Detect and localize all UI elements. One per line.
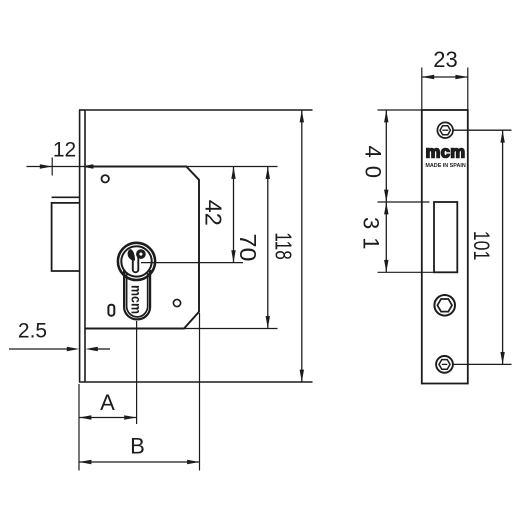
lock body outline — [85, 167, 199, 329]
middle hex screw: outer circle — [434, 295, 455, 316]
dim 40: top arrow — [384, 110, 388, 122]
dim 2.5: left arrow — [67, 347, 79, 351]
small slot left of cylinder — [108, 305, 114, 316]
svg-text:mcm: mcm — [426, 143, 466, 161]
svg-text:101: 101 — [469, 231, 494, 260]
dim 118: top extension line (plate top extended) — [85, 109, 313, 111]
dim A: right arrow — [124, 415, 136, 419]
dim 101: top leader from top screw — [453, 129, 512, 131]
dim 23: right arrow — [455, 75, 467, 79]
svg-text:40: 40 — [361, 146, 386, 179]
top screw: center dash — [442, 129, 448, 131]
dim B: right arrow — [187, 460, 199, 464]
dim 12: right arrow — [81, 164, 93, 168]
svg-text:42: 42 — [201, 200, 227, 226]
svg-text:MADE IN SPAIN: MADE IN SPAIN — [425, 163, 465, 169]
dim 31: dimension line — [385, 202, 387, 272]
bottom screw: hex socket — [439, 360, 450, 370]
key profile inside cylinder — [128, 249, 145, 272]
dim 31: top arrow — [384, 202, 388, 214]
bottom screw: center dash — [442, 363, 448, 365]
small hole right-middle of body — [173, 299, 180, 306]
dim 101: top arrow — [500, 130, 504, 142]
dim 42: bottom arrow — [231, 250, 235, 262]
bolt (deadbolt, protruding left of faceplate) — [52, 197, 80, 271]
dim 2.5: right arrow — [85, 347, 97, 351]
dim 23: left arrow — [422, 75, 434, 79]
top screw: hex socket — [440, 126, 450, 135]
svg-text:12: 12 — [53, 139, 76, 162]
bolt cutout in faceplate — [434, 202, 457, 272]
dim 70: dimension line — [267, 167, 269, 329]
svg-text:B: B — [130, 434, 145, 459]
euro cylinder oblong outer — [124, 270, 150, 319]
top screw: outer circle — [437, 122, 453, 138]
screw hole top-left of body — [102, 175, 109, 182]
svg-text:mcm: mcm — [129, 285, 144, 314]
dim B: right extension line (body back extended down) — [199, 313, 201, 471]
middle hex screw: hexagon — [437, 299, 452, 312]
dim 118: bottom arrow — [300, 370, 304, 382]
dim 40: middle extension line (cutout top extended) — [378, 201, 430, 203]
dim 12: left arrow — [40, 164, 52, 168]
dim 31: bottom arrow — [384, 260, 388, 272]
svg-text:31: 31 — [359, 217, 384, 250]
dim 40: dimension line — [385, 110, 387, 202]
bottom screw: outer circle — [436, 356, 453, 373]
dim 40: bottom arrow — [384, 190, 388, 202]
dim A: left extension line (plate front extended down) — [78, 384, 80, 471]
dim 23: right extension line — [467, 68, 469, 111]
faceplate front view (right view) — [422, 110, 468, 384]
faceplate side view (left view) — [80, 110, 85, 382]
svg-text:A: A — [100, 390, 115, 415]
dim 23: dimension line — [422, 76, 468, 78]
dim 23: left extension line — [421, 68, 423, 111]
dim 2.5: dimension line right part — [96, 348, 110, 350]
euro cylinder outer circle — [118, 243, 155, 280]
svg-text:70: 70 — [235, 234, 261, 262]
dim A: dimension line — [79, 417, 137, 419]
dim 70: top arrow — [266, 167, 270, 179]
dim B: left arrow — [79, 460, 91, 464]
dim 12: extension line at bolt face — [51, 158, 53, 176]
dim 40: top extension line — [378, 109, 422, 111]
dim 101: bottom arrow — [500, 352, 504, 364]
dim 70: bottom arrow — [266, 316, 270, 328]
wire top extension line (body top edge extended for 42/70 dims) — [186, 166, 277, 168]
svg-text:118: 118 — [271, 232, 297, 259]
dim 2.5: dimension line left part — [9, 348, 68, 350]
wire bottom extension line (body bottom edge extended) — [184, 328, 278, 330]
dim 118: plate top edge — [79, 109, 85, 111]
euro cylinder inner circle — [121, 246, 151, 276]
dim 118: top arrow — [300, 110, 304, 122]
svg-text:2.5: 2.5 — [18, 320, 47, 343]
dim 118: dimension line — [301, 110, 303, 382]
dim 101: bottom leader from bottom screw — [454, 363, 512, 365]
dim 42: top arrow — [231, 167, 235, 179]
dim 12: dimension line — [27, 166, 104, 168]
dim A: right extension line (cylinder axis) — [136, 321, 138, 424]
dim A: left arrow — [79, 415, 91, 419]
dim 31: bottom extension line (cutout bottom extended) — [378, 271, 435, 273]
centerline from cylinder to 42 dim — [141, 262, 243, 264]
euro cylinder oblong inner — [127, 272, 148, 317]
dim 101: dimension line — [502, 130, 504, 364]
dim 118: bottom extension line (plate bottom extended) — [79, 381, 313, 383]
dim B: dimension line — [79, 461, 200, 463]
svg-text:23: 23 — [433, 47, 457, 72]
dim 42: dimension line — [233, 167, 235, 263]
